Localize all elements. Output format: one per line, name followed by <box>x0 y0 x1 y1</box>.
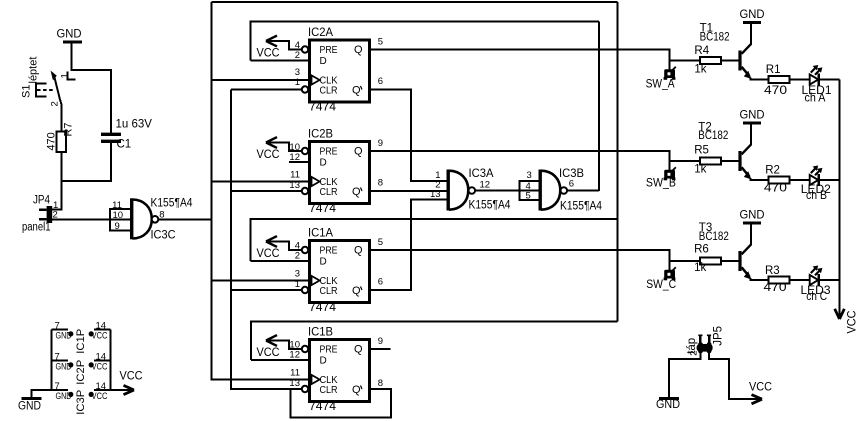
svg-text:GND: GND <box>18 400 41 412</box>
wire IC1B.Qbar loop to CLR <box>291 389 392 418</box>
wire IC2A.Qbar to IC3A.1 <box>371 90 447 182</box>
wire junction R7/C1 <box>60 180 111 182</box>
wire VCC rail right <box>839 80 841 309</box>
pin 14 VCC IC3P <box>94 389 111 391</box>
wire IC3B out vertical <box>598 22 600 192</box>
svg-text:13: 13 <box>430 189 441 200</box>
wire IC1A D loop <box>250 219 617 261</box>
flip-flop IC2B 7474 <box>289 129 383 216</box>
svg-text:BC182: BC182 <box>699 231 729 243</box>
wire IC1A.D from loop <box>250 260 309 262</box>
svg-text:8: 8 <box>378 378 383 389</box>
svg-text:IC3B: IC3B <box>559 168 584 180</box>
svg-text:ch A: ch A <box>805 92 826 104</box>
svg-text:VCC: VCC <box>92 391 108 402</box>
svg-text:9: 9 <box>115 221 120 232</box>
wire power block to ground <box>32 390 52 398</box>
svg-text:5: 5 <box>378 237 383 248</box>
svg-text:1k: 1k <box>694 262 706 274</box>
wire node S1.1 to C1 top <box>72 70 111 133</box>
wire IC3A.12 to IC3B inputs <box>475 190 520 192</box>
wire IC2A.CLK from clock bus <box>212 79 312 81</box>
wire JP5.2 to ground <box>669 353 701 398</box>
svg-text:9: 9 <box>378 336 383 347</box>
svg-text:S1: S1 <box>21 85 33 98</box>
power VCC arrow right of block <box>111 371 143 395</box>
wire JP4.2 to IC3C input <box>52 219 130 221</box>
svg-text:R4: R4 <box>694 45 709 57</box>
svg-text:1: 1 <box>295 77 300 88</box>
power block IC1P/IC2P/IC3P supply pins <box>52 321 111 415</box>
svg-text:5: 5 <box>378 37 383 48</box>
svg-text:IC2A: IC2A <box>308 27 333 39</box>
svg-text:panel1: panel1 <box>22 222 51 234</box>
svg-text:R5: R5 <box>694 145 709 157</box>
svg-text:R7: R7 <box>63 122 75 136</box>
power VCC arrow for IC2A PRE <box>257 36 302 60</box>
wire IC2A.D from loop <box>250 60 309 62</box>
svg-text:K155¶A4: K155¶A4 <box>469 199 512 211</box>
svg-text:IC3C: IC3C <box>151 229 176 241</box>
svg-text:5: 5 <box>526 190 531 201</box>
capacitor C1 1u 63V <box>101 119 152 182</box>
wire IC1B.D from loop <box>251 359 309 361</box>
svg-text:3: 3 <box>527 170 532 181</box>
resistor R7 470 <box>45 122 74 152</box>
wire IC2B.D stub <box>289 161 309 163</box>
svg-text:2: 2 <box>50 101 61 106</box>
wire reset bus vertical <box>230 90 232 391</box>
svg-text:GND: GND <box>57 28 82 40</box>
wire GND to S1 pin1 <box>71 43 73 71</box>
svg-text:SW_A: SW_A <box>646 79 675 91</box>
pin 7 GND IC1P <box>52 329 69 331</box>
pin 7 GND IC3P <box>52 389 69 391</box>
pin 14 VCC IC2P <box>94 360 111 362</box>
wire IC1A.Q to channel C <box>371 250 670 261</box>
wire down to JP4 pin1 <box>51 181 61 210</box>
wire right vertical of top net <box>617 2 619 322</box>
svg-text:K155¶A4: K155¶A4 <box>151 197 194 209</box>
wire JP5.1 to VCC <box>709 353 753 399</box>
NAND gate IC3A K1551A4 <box>430 168 511 212</box>
wire IC1A.CLR from reset bus <box>231 289 302 291</box>
svg-text:K155¶A4: K155¶A4 <box>560 200 603 212</box>
channel C: switch SW_C, resistor R6 1k, transistor T3 BC182, ground, resistor R3 470, LED3 <box>646 209 839 303</box>
svg-text:IC3P: IC3P <box>75 390 87 415</box>
switch S1 <box>21 57 76 107</box>
svg-text:470: 470 <box>45 132 57 150</box>
wire S1.2 to R7 <box>60 100 61 132</box>
ground symbol bottom-left <box>18 399 42 413</box>
svg-text:1u 63V: 1u 63V <box>116 119 153 131</box>
power VCC arrow for JP5 <box>749 381 772 403</box>
svg-text:IC3A: IC3A <box>469 168 494 180</box>
svg-text:9: 9 <box>378 138 383 149</box>
svg-text:8: 8 <box>378 178 383 189</box>
wire IC1B.CLR from reset bus <box>231 388 302 390</box>
connector JP4 panel1 <box>22 194 58 233</box>
svg-text:IC1P: IC1P <box>75 329 87 354</box>
svg-text:2: 2 <box>689 351 700 356</box>
power VCC arrow for IC2B PRE <box>257 137 302 161</box>
ground GND top-left <box>57 28 83 42</box>
wire IC3C.8 to clock bus <box>158 219 211 221</box>
wire IC1A.Qbar to IC3A.13 <box>371 200 447 291</box>
NAND gate IC3B K1551A4 <box>520 168 603 212</box>
svg-text:BC182: BC182 <box>698 130 728 142</box>
svg-text:IC1A: IC1A <box>308 228 333 240</box>
svg-text:SW_B: SW_B <box>646 177 676 189</box>
svg-text:R1: R1 <box>766 64 781 76</box>
flip-flop IC1A 7474 <box>295 228 383 315</box>
svg-text:470: 470 <box>764 183 787 195</box>
svg-text:JP5: JP5 <box>713 326 725 346</box>
svg-text:BC182: BC182 <box>700 31 730 43</box>
wire IC1B.CLK from clock bus <box>212 379 312 381</box>
svg-text:470: 470 <box>764 282 787 294</box>
wire IC2B.Qbar to IC3A.2 <box>371 190 447 192</box>
channel A: switch SW_A, resistor R4 1k, transistor T1 BC182, ground, resistor R1 470, LED1 <box>646 9 840 105</box>
wire IC3B.6 to IC2A loop <box>567 190 599 192</box>
power VCC arrow down <box>835 300 858 334</box>
svg-text:R6: R6 <box>694 243 709 255</box>
wire R7 to junction <box>60 152 62 182</box>
svg-text:GND: GND <box>56 330 72 341</box>
ground symbol for JP5 <box>656 399 680 411</box>
svg-text:1k: 1k <box>694 63 706 75</box>
wire IC2B.Q to channel B <box>371 151 670 161</box>
svg-text:léptet: léptet <box>28 57 40 84</box>
wire IC2A.CLR from reset bus <box>231 89 302 91</box>
svg-text:1: 1 <box>60 73 71 78</box>
wire IC1B.Q stub <box>371 348 391 350</box>
svg-text:GND: GND <box>656 399 680 411</box>
svg-text:3: 3 <box>295 67 300 78</box>
wire clock bus vertical <box>211 2 213 381</box>
wire IC2B.CLK from clock bus <box>212 181 312 183</box>
svg-text:470: 470 <box>764 85 787 97</box>
wire top net <box>212 1 618 3</box>
svg-text:1k: 1k <box>694 163 706 175</box>
svg-text:GND: GND <box>56 391 72 402</box>
svg-text:6: 6 <box>378 277 383 288</box>
svg-text:12: 12 <box>480 180 491 191</box>
svg-text:IC1B: IC1B <box>308 327 333 339</box>
svg-text:VCC: VCC <box>120 371 143 383</box>
svg-text:R2: R2 <box>765 165 780 177</box>
wire IC2B.CLR from reset bus <box>231 190 302 192</box>
wire IC1B D loop <box>251 322 618 361</box>
NAND gate IC3C K1551A4 <box>110 197 193 241</box>
svg-text:ch C: ch C <box>806 291 827 303</box>
power VCC arrow for IC1B PRE <box>257 335 302 359</box>
svg-text:IC2B: IC2B <box>308 129 333 141</box>
svg-text:ch B: ch B <box>806 190 827 202</box>
flip-flop IC2A 7474 <box>295 27 383 114</box>
svg-text:6: 6 <box>378 76 383 87</box>
svg-text:VCC: VCC <box>749 381 772 393</box>
svg-text:VCC: VCC <box>847 311 858 334</box>
pin 7 GND IC2P <box>52 360 69 362</box>
svg-text:JP4: JP4 <box>33 194 51 206</box>
power VCC arrow for IC1A PRE <box>257 236 302 260</box>
svg-text:VCC: VCC <box>92 330 108 341</box>
wire IC2A.Q to channel A <box>371 50 670 61</box>
svg-text:IC2P: IC2P <box>75 360 87 385</box>
svg-text:10: 10 <box>113 210 124 221</box>
svg-text:GND: GND <box>56 361 72 372</box>
channel B: switch SW_B, resistor R5 1k, transistor T2 BC182, ground, resistor R2 470, LED2 <box>646 109 840 202</box>
svg-text:R3: R3 <box>765 265 780 277</box>
svg-text:SW_C: SW_C <box>646 279 676 291</box>
pin 14 VCC IC1P <box>94 329 111 331</box>
svg-text:VCC: VCC <box>92 361 108 372</box>
connector JP5 tap <box>686 326 725 356</box>
svg-text:C1: C1 <box>117 138 132 150</box>
wire IC1A.CLK from clock bus <box>212 280 312 282</box>
wire IC2A loop top <box>250 22 599 61</box>
flip-flop IC1B 7474 <box>289 327 383 414</box>
